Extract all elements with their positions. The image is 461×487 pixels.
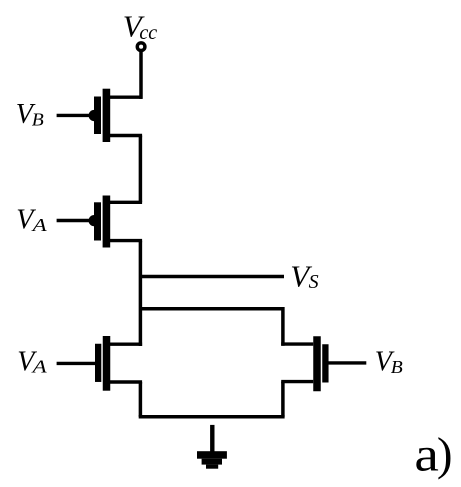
- wire VS branch: [140, 275, 284, 279]
- wire Vcc to Q1 drain: [139, 52, 143, 99]
- net VA label (middle left): [16, 205, 48, 236]
- transistor Q3 (gate VA, NMOS-style no bump): [57, 336, 143, 391]
- svg-text:S: S: [309, 271, 319, 293]
- svg-text:B: B: [391, 357, 403, 377]
- node Vcc label: [123, 9, 158, 45]
- transistor Q2 (gate VA, PMOS-style with bump): [57, 196, 143, 248]
- svg-text:A: A: [31, 357, 48, 377]
- wire Q2 source down to Q3 drain (through VS junction and pair rail): [139, 241, 143, 346]
- wire Q4 source to ground rail: [281, 382, 285, 417]
- svg-text:a: a: [414, 426, 439, 481]
- wire bottom rail: [139, 415, 285, 419]
- label a): [414, 426, 452, 481]
- Vcc terminal circle: [137, 43, 145, 51]
- svg-text:cc: cc: [139, 22, 157, 44]
- net VB label (top left): [16, 99, 44, 130]
- net VB label (bottom right): [375, 347, 403, 378]
- svg-text:A: A: [31, 215, 48, 235]
- wire ground stem: [210, 425, 214, 452]
- transistor Q1 (gate VB, PMOS-style with bump): [57, 89, 143, 142]
- node VS label: [290, 259, 318, 294]
- ground symbol: [197, 451, 227, 469]
- net VA label (bottom left): [17, 346, 48, 377]
- wire top rail to Q4 drain: [140, 309, 283, 346]
- wire Q3 source to ground rail: [139, 382, 143, 417]
- transistor Q4 (gate VB, NMOS-style no bump, mirrored): [281, 336, 366, 391]
- svg-text:B: B: [32, 109, 44, 129]
- svg-text:): ): [437, 429, 453, 481]
- wire Q1 source to Q2 drain: [139, 136, 143, 203]
